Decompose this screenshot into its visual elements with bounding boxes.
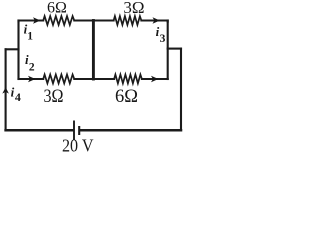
wire top right segment	[141, 21, 167, 22]
wire middle row centre segment	[74, 78, 114, 80]
wire outer-right vertical	[180, 49, 182, 131]
resistor R4 6ohm middle-right zigzag	[114, 75, 142, 84]
wire inner-left vertical	[17, 21, 19, 80]
wire bottom left segment	[6, 129, 73, 132]
battery V1 plate long (left)	[73, 121, 75, 141]
current arrow i3 head (top-right, right)	[153, 17, 160, 24]
svg-text:20 V: 20 V	[62, 135, 94, 155]
wire outer-left vertical	[5, 49, 7, 130]
wire bottom right segment	[80, 129, 181, 132]
wire inner-right vertical	[167, 21, 169, 80]
wire top left segment	[19, 21, 44, 22]
svg-text:2: 2	[29, 62, 35, 74]
wire middle row right segment	[142, 78, 168, 80]
svg-text:1: 1	[27, 31, 33, 43]
wire middle vertical (thick)	[92, 21, 95, 80]
current arrow i4 head (outer-left, up)	[2, 87, 9, 93]
current arrow i1 head (top-left, right)	[33, 17, 40, 24]
wire right jog	[168, 48, 181, 50]
resistor R3 3ohm middle-left zigzag	[43, 75, 74, 84]
resistor R2 3ohm top-right zigzag	[114, 16, 142, 25]
resistor R1 6ohm top-left zigzag	[43, 16, 74, 25]
svg-text:6Ω: 6Ω	[47, 0, 67, 17]
svg-text:3: 3	[160, 33, 166, 45]
svg-text:6Ω: 6Ω	[115, 86, 138, 107]
svg-text:3Ω: 3Ω	[44, 86, 64, 107]
current arrow i2 head (middle-left, right)	[28, 76, 35, 83]
svg-text:4: 4	[15, 90, 21, 104]
battery V1 plate short (right)	[78, 126, 80, 135]
wire middle row left segment	[19, 78, 44, 80]
svg-text:3Ω: 3Ω	[123, 0, 144, 17]
wire top middle segment	[74, 19, 113, 21]
current arrow head middle-right	[151, 76, 158, 83]
wire left jog	[6, 48, 19, 50]
